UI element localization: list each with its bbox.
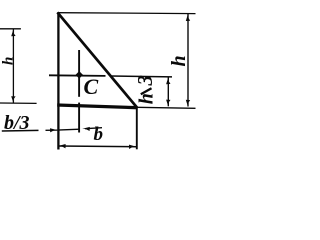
- dimension h/3: up arrowhead: [166, 77, 170, 84]
- dimension h left: bottom extension line: [0, 102, 37, 104]
- dimension h/3: down arrowhead: [166, 100, 170, 107]
- dimension h left: top extension line: [0, 28, 21, 30]
- triangle hypotenuse: [57, 12, 136, 107]
- dimension h/3: dimension line: [167, 77, 169, 106]
- centroid vertical axis (lower segment): [78, 103, 80, 133]
- triangle left edge with lower extension: [57, 12, 59, 149]
- dimension b: dimension line: [58, 145, 136, 148]
- b/3 left-pointing arrowhead with tail: [82, 127, 90, 131]
- label h/3 slash: [141, 88, 152, 94]
- centroid vertical axis (upper segment): [78, 50, 80, 97]
- b/3 dimension line segment: [57, 128, 79, 131]
- svg-text:3: 3: [133, 75, 157, 87]
- svg-text:b: b: [94, 124, 104, 145]
- b/3 leader underline: [2, 129, 39, 132]
- dimension h right: up arrowhead: [186, 14, 190, 21]
- dimension h left: down arrowhead: [11, 96, 15, 103]
- bottom-right vertical extension line: [136, 108, 138, 150]
- centroid horizontal axis (right extension to h/3): [111, 75, 172, 78]
- dimension h left: dimension line: [12, 29, 14, 102]
- dimension b: right arrowhead: [129, 145, 136, 149]
- centroid dot: [76, 71, 84, 79]
- svg-text:C: C: [84, 74, 99, 99]
- b/3 arrow tail line: [85, 128, 102, 129]
- dimension h left: up arrowhead: [11, 29, 15, 36]
- bottom-right extension line: [137, 107, 196, 108]
- svg-text:h: h: [135, 93, 157, 104]
- svg-text:h: h: [168, 55, 190, 66]
- dimension b: left arrowhead: [58, 144, 65, 148]
- b/3 right-pointing arrowhead at left edge: [50, 128, 57, 132]
- dimension h right: dimension line: [187, 14, 189, 107]
- centroid horizontal axis (left part): [49, 74, 106, 77]
- top extension line from apex to h dimension: [58, 12, 196, 15]
- dimension h right: down arrowhead: [186, 100, 190, 107]
- svg-text:h: h: [1, 57, 17, 65]
- triangle bottom edge: [57, 105, 137, 108]
- b/3 leader arrow tail: [46, 129, 58, 131]
